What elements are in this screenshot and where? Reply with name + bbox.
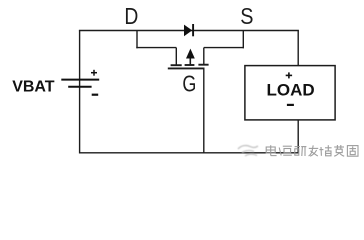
wire load top [297, 31, 299, 67]
svg-text:LOAD: LOAD [267, 81, 315, 100]
battery plus mark [91, 72, 97, 74]
negative plate [68, 86, 91, 88]
char 精 [319, 145, 331, 156]
source plate [198, 64, 208, 66]
svg-text:VBAT: VBAT [12, 78, 55, 95]
watermark text 电源研发精英圈 (drawn) [266, 145, 358, 156]
battery VBAT [61, 70, 99, 95]
char 电 [266, 145, 276, 155]
gate plate [168, 67, 205, 69]
load box [245, 66, 335, 120]
battery minus mark [92, 94, 99, 96]
char 英 [334, 145, 344, 156]
load plus mark [286, 72, 292, 78]
wire drain rail to Q1 [136, 47, 176, 49]
svg-text:D: D [124, 4, 138, 29]
wire left rail (VBAT branch) [79, 31, 81, 154]
wire gate drop [203, 68, 205, 153]
body diode D1 [184, 24, 193, 36]
wire bottom rail [79, 152, 299, 154]
char 研 [295, 147, 307, 156]
wire source drop [242, 31, 244, 49]
svg-text:G: G [182, 72, 196, 98]
body arrow [189, 55, 191, 65]
pin source leg [203, 48, 205, 65]
wire source rail to Q1 [204, 47, 244, 49]
label S [240, 4, 253, 30]
load minus mark [287, 104, 294, 106]
drain plate [171, 64, 182, 66]
positive plate [61, 79, 99, 81]
label G [182, 72, 196, 98]
pin drain leg [175, 48, 177, 65]
wire top rail (drain-source) [79, 30, 299, 32]
watermark logo [238, 145, 258, 156]
char 发 [309, 145, 319, 156]
char 圈 [347, 146, 358, 157]
svg-text:S: S [240, 4, 253, 30]
transistor Q1 MOSFET [168, 48, 209, 69]
wire load bottom [297, 120, 299, 154]
label D [124, 4, 138, 29]
char 源 [279, 146, 292, 155]
wire drain drop [136, 31, 138, 49]
body plate [185, 64, 195, 66]
